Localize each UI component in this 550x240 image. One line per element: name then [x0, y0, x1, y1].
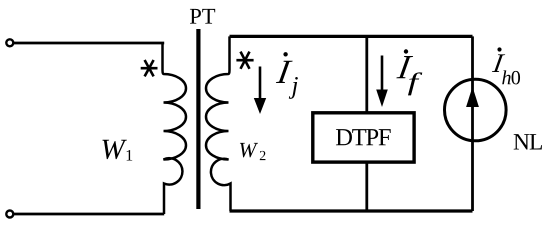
label W1 — [102, 140, 126, 159]
terminal top-left — [6, 39, 13, 46]
wire primary top — [13, 42, 164, 45]
transformer core — [196, 29, 200, 209]
label DTPF — [336, 129, 391, 145]
label If — [396, 49, 422, 95]
DTPF box — [313, 113, 414, 162]
label Ij — [276, 52, 298, 99]
label Ih0 — [492, 47, 520, 84]
label PT — [190, 9, 215, 24]
label NL — [514, 134, 542, 149]
terminal bottom-left — [6, 211, 13, 218]
wire DTPF top feed — [365, 36, 368, 113]
label W2 — [240, 143, 258, 157]
wire primary bottom — [13, 213, 164, 216]
winding W1 — [163, 43, 187, 214]
wire NL branch — [471, 36, 474, 211]
bottom bus — [230, 209, 473, 212]
current source arrowhead — [466, 87, 479, 107]
wire DTPF bottom feed — [365, 162, 368, 212]
winding W2 — [206, 36, 231, 211]
current arrow If — [376, 56, 388, 108]
current source NL circle — [445, 79, 507, 141]
polarity asterisk W2 — [236, 52, 253, 69]
top bus — [230, 35, 473, 38]
current arrow Ij — [254, 67, 266, 115]
polarity asterisk W1 — [141, 60, 158, 76]
